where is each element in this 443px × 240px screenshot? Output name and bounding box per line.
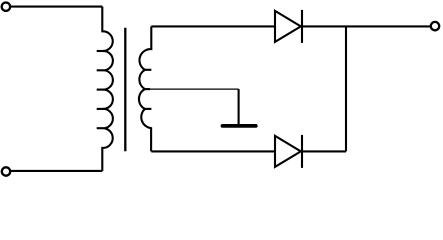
wire center tap horizontal [148,88,239,90]
terminal J1 (AC input, top-left) [2,3,10,11]
terminal J2 (AC input, bottom-left) [2,167,10,175]
wire secondary top to D1 anode [151,25,275,27]
transformer T1 primary winding [102,7,113,171]
secondary winding tick nubs [144,70,151,109]
wire output node down to D2 cathode (right branch) [345,26,347,151]
transformer T1 secondary winding [139,26,151,151]
transformer T1 core [124,28,126,151]
wire D1 cathode to output node [302,25,431,27]
ground symbol [223,124,256,128]
diode D2 (bottom) [275,135,302,168]
wire center tap down to ground [238,89,240,124]
wire J1 to primary top [10,6,102,8]
diode D1 (top) [275,10,302,43]
wire secondary bottom to D2 anode [151,150,275,152]
wire primary bottom to J2 [10,170,102,172]
primary winding tick nubs [97,51,103,128]
terminal J3 (DC output, top-right) [431,22,439,30]
wire D2 cathode to right branch [302,150,346,152]
